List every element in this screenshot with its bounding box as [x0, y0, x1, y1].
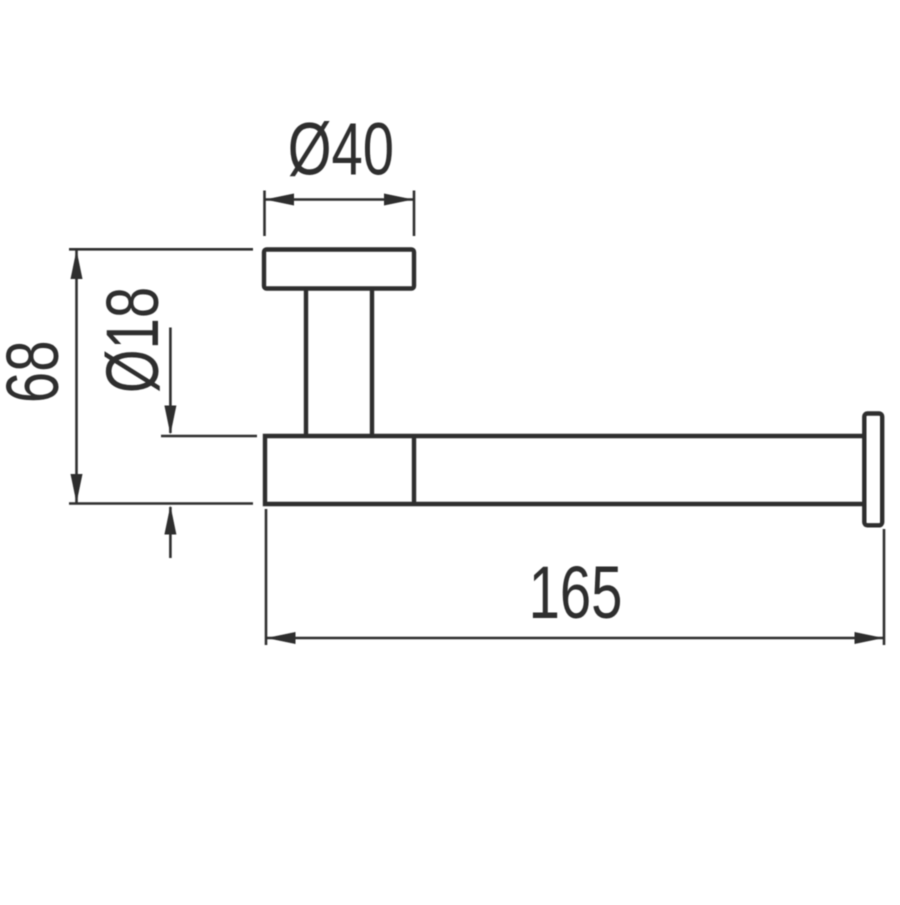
dimension Ø40: right extension line	[413, 191, 416, 237]
dimension Ø40: left extension line	[263, 191, 266, 237]
bar holder separator line	[412, 436, 416, 504]
dimension Ø18: upper extension line	[161, 435, 257, 438]
end cap disc (right end)	[864, 414, 882, 526]
wall flange (top mounting plate)	[264, 250, 414, 289]
dimension 68: bottom arrowhead	[71, 474, 83, 503]
horizontal bar (roll rail) outline	[265, 436, 864, 504]
dimension 165: right extension line	[883, 529, 886, 645]
dimension Ø18: lower leader line with up arrowhead	[169, 507, 172, 558]
svg-text:Ø18: Ø18	[92, 287, 174, 393]
dimension Ø40: dimension line	[265, 198, 414, 201]
dimension 68: top extension line	[69, 248, 253, 251]
dimension 68: top arrowhead	[71, 250, 83, 279]
dimension 165: left extension line	[265, 509, 268, 645]
dimension Ø18: upper leader line with down arrowhead	[169, 328, 172, 434]
svg-text:165: 165	[529, 552, 623, 634]
dimension 68: vertical dimension line	[75, 250, 78, 504]
svg-text:Ø40: Ø40	[288, 108, 394, 190]
svg-text:68: 68	[0, 341, 74, 404]
post left edge	[304, 288, 308, 438]
dimension 165: left arrowhead	[267, 632, 296, 644]
dimension Ø40: right arrowhead	[384, 194, 413, 206]
dimension Ø40: left arrowhead	[265, 194, 294, 206]
post right edge	[370, 288, 374, 438]
dimension 68: bottom extension line (shared with Ø18)	[69, 502, 253, 505]
dimension 165: dimension line	[267, 637, 884, 640]
dimension 165: right arrowhead	[855, 632, 884, 644]
